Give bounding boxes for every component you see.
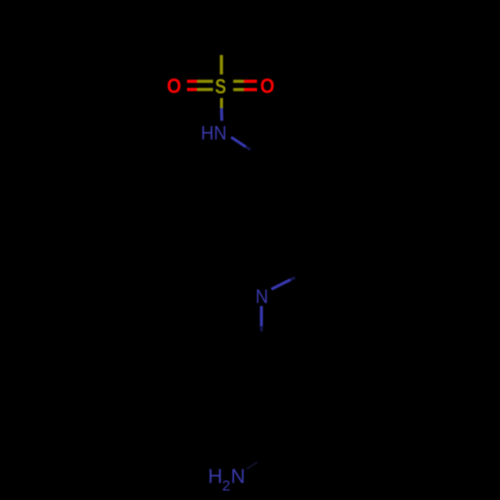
svg-text:H: H bbox=[208, 466, 222, 488]
svg-text:O: O bbox=[260, 75, 274, 98]
svg-text:2: 2 bbox=[222, 479, 230, 495]
svg-text:HN: HN bbox=[201, 122, 227, 144]
svg-text:O: O bbox=[167, 75, 181, 98]
svg-text:N: N bbox=[255, 285, 268, 307]
svg-text:N: N bbox=[231, 466, 245, 488]
svg-text:S: S bbox=[215, 76, 226, 99]
